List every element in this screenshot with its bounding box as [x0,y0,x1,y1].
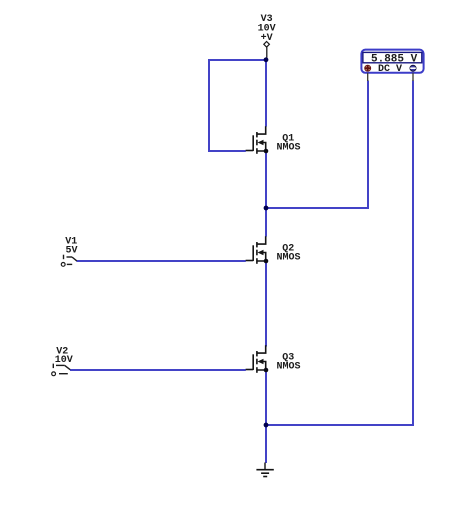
wire left vertical of Q1 gate-drain loop [208,59,210,151]
label Q2 [282,243,294,254]
wire voltmeter positive lead vertical [367,81,369,210]
transistor Q3 NMOS [246,345,269,373]
transistor Q1 NMOS [246,126,269,154]
svg-text:DC V: DC V [378,64,402,75]
power source V3 diamond terminal [264,42,270,59]
wire node A right to voltmeter positive lead [265,207,368,209]
ground [256,463,273,477]
voltmeter negative terminal [410,65,416,71]
wire Q1 source down to node A [265,153,267,209]
label Q1 [282,133,294,144]
voltmeter mode label DC V [378,64,402,75]
svg-text:5V: 5V [65,246,77,257]
voltmeter pin stubs [368,73,413,81]
svg-text:NMOS: NMOS [277,143,301,154]
voltmeter XMM1 body [361,50,423,73]
wire node A down to Q2 drain [265,208,267,237]
label NMOS Q2 [277,253,301,264]
svg-text:10V: 10V [55,355,73,366]
label NMOS Q1 [277,143,301,154]
source V1 symbol [61,255,77,267]
source V2 labels [55,347,73,366]
svg-text:NMOS: NMOS [277,362,301,373]
node A junction dot [264,206,269,211]
voltmeter reading 5.885 V [371,53,418,65]
node at V3 junction [264,57,269,62]
source V2 symbol [52,364,71,376]
voltmeter positive terminal [365,65,371,71]
wire V1 to Q2 gate [77,260,246,262]
svg-text:NMOS: NMOS [277,253,301,264]
wire Q2 source down to Q3 drain [265,263,267,347]
wire Q3 source down through node B to ground [265,372,267,463]
power source V3 +V label [258,14,276,44]
wire loop bottom to Q1 gate [208,150,246,152]
wire voltmeter negative lead vertical down to bottom wire [412,81,414,427]
label Q3 [282,352,294,363]
wire V2 to Q3 gate [70,369,246,371]
wire V3 node down to Q1 drain [265,60,267,127]
node B junction dot [264,423,269,428]
wire node B right along bottom [265,424,414,426]
label NMOS Q3 [277,362,301,373]
wire top loop horizontal from V3 node to left [208,59,267,61]
source V1 labels [65,237,77,257]
transistor Q2 NMOS [246,236,269,263]
